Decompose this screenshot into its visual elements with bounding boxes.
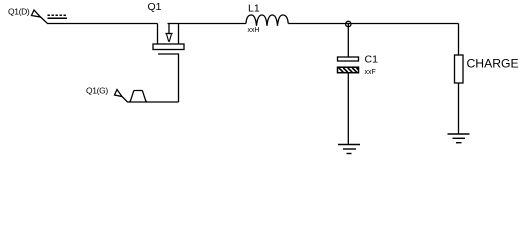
svg-text:Q1: Q1	[148, 1, 162, 13]
svg-text:xxF: xxF	[365, 69, 376, 76]
svg-text:xxH: xxH	[248, 27, 260, 34]
svg-text:CHARGE: CHARGE	[467, 56, 519, 70]
svg-text:C1: C1	[365, 54, 379, 66]
svg-text:Q1(G): Q1(G)	[86, 86, 108, 96]
svg-text:L1: L1	[248, 2, 260, 14]
svg-text:Q1(D): Q1(D)	[8, 7, 30, 17]
